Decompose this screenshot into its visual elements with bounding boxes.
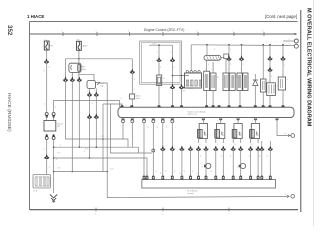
wire box1b to ECM [212, 91, 214, 108]
wire box3 to ECM [239, 91, 241, 108]
svg-text:W: W [221, 156, 223, 158]
node junction ground wire [53, 146, 55, 148]
svg-text:B: B [284, 65, 285, 67]
wire relay contact leg [71, 72, 73, 77]
wire relay left leg [65, 59, 67, 78]
wire drop to igniter box [262, 45, 264, 79]
wire bus y75.5 [173, 75, 190, 77]
ignition switch [44, 121, 63, 132]
svg-text:R: R [230, 49, 232, 51]
svg-text:Dist: Dist [182, 90, 186, 93]
svg-text:8: 8 [263, 30, 264, 32]
wire L4 ground branch [54, 158, 147, 176]
wire L3 branch [110, 104, 151, 153]
fuse AM2 [76, 39, 88, 51]
connector on wire a [44, 154, 49, 159]
svg-text:B: B [192, 171, 193, 173]
svg-text:S1: S1 [217, 77, 219, 79]
section numbers [62, 30, 264, 32]
fuse EFI [44, 39, 53, 50]
svg-text:B: B [156, 171, 157, 173]
wire drop to sensor box1 right [212, 62, 214, 73]
svg-text:7: 7 [228, 214, 229, 216]
svg-text:Filter: Filter [136, 97, 141, 100]
svg-text:1: 1 [88, 91, 89, 93]
connector below fuse EFI [44, 58, 49, 63]
sensor box 2 [223, 73, 238, 91]
svg-text:3: 3 [96, 30, 97, 32]
wire fuse EFI down [46, 50, 48, 59]
svg-text:W: W [267, 156, 269, 158]
svg-text:1 HIACE: 1 HIACE [27, 14, 44, 19]
svg-text:2: 2 [266, 42, 267, 44]
svg-text:B: B [174, 67, 175, 69]
node dot b4 [269, 44, 271, 46]
svg-text:B: B [43, 71, 45, 73]
terminal lower a [45, 134, 48, 139]
wire drop to connector stack [269, 45, 271, 56]
resistor pill horizontal [204, 55, 221, 60]
svg-text:2: 2 [171, 52, 172, 54]
fusible link block [140, 41, 182, 84]
svg-text:W: W [147, 171, 149, 173]
wire diode to ECM [254, 90, 256, 107]
connector in link box b [170, 57, 175, 62]
wire small box down to sensor box2 [225, 59, 227, 73]
wire relay2 leg a [89, 89, 91, 93]
wire ECM right to circle [277, 119, 291, 136]
svg-text:B: B [230, 156, 231, 158]
svg-text:B: B [148, 127, 149, 129]
svg-text:2: 2 [78, 75, 79, 77]
svg-text:W: W [211, 171, 213, 173]
distributor connector block [182, 71, 202, 93]
svg-text:E1: E1 [160, 173, 162, 175]
small box right of pill [224, 54, 229, 59]
svg-text:[Cont. next page]: [Cont. next page] [265, 14, 297, 19]
wire junction103 to ECM [103, 104, 122, 107]
wire tap to C OPN relay [79, 74, 94, 80]
wire stack to box4 [269, 72, 271, 83]
wire box5 to ECM [282, 90, 284, 107]
svg-text:B: B [208, 64, 209, 66]
svg-text:B: B [49, 167, 50, 169]
wire resistor to ECM [158, 86, 160, 108]
svg-text:B: B [60, 145, 61, 147]
svg-text:M OVERALL ELECTRICAL WIRING D: M OVERALL ELECTRICAL WIRING DIAGRAM [306, 8, 312, 127]
svg-text:B–R: B–R [44, 104, 48, 106]
node dot b1 [206, 44, 208, 46]
wire junction L1 down [102, 104, 104, 172]
connector circle to next page bottom [291, 195, 295, 199]
connector stack x270 lower [268, 66, 273, 71]
svg-text:5: 5 [162, 30, 163, 32]
svg-text:L: L [190, 49, 191, 51]
wire box4 to ECM [269, 96, 271, 108]
connector below relay2 leg b [94, 91, 99, 96]
svg-text:B: B [200, 156, 201, 158]
ECM bottom pin ovals [122, 120, 174, 123]
node junction on link bar [158, 44, 160, 46]
svg-text:E3: E3 [197, 173, 199, 175]
sensor box 1 [204, 71, 219, 90]
connector below relay2 leg a [87, 91, 92, 96]
svg-text:2: 2 [228, 69, 229, 71]
wire left leg routing L1 [66, 82, 129, 148]
wire contact leg routing down [71, 82, 73, 172]
terminal AM2 [45, 113, 48, 118]
svg-text:B: B [49, 67, 50, 69]
svg-text:B: B [243, 64, 244, 66]
injector no4 [250, 124, 260, 139]
svg-text:2: 2 [217, 121, 218, 123]
injector no3 [232, 124, 242, 139]
ECM top pin bumps [120, 105, 285, 107]
svg-text:6: 6 [197, 30, 198, 32]
wire horizontal feed line y58.8 [66, 58, 133, 60]
ground engine ground [50, 195, 57, 203]
svg-text:W: W [157, 127, 159, 129]
svg-text:2: 2 [62, 30, 63, 32]
ovals on left vertical wires [152, 149, 155, 152]
wire term a to switch [46, 116, 48, 121]
node junction L2 [79, 146, 81, 148]
terminal IG2 [52, 113, 55, 118]
wire drop to sensor box3 [241, 45, 243, 73]
wire drop to connector b5 [282, 45, 284, 56]
top section line with arrow [30, 33, 295, 35]
svg-text:3: 3 [95, 214, 96, 216]
svg-text:3: 3 [289, 44, 290, 46]
wire switch lower b to ground [53, 140, 55, 193]
svg-text:7: 7 [164, 120, 165, 122]
wire relay2 leg b [95, 89, 97, 93]
connector on wire 96.3 [94, 113, 99, 118]
junction connector block [33, 175, 51, 193]
wire drop to pill [206, 45, 208, 56]
wire check b to ECM [181, 89, 183, 107]
connector on drop b2 [227, 55, 232, 60]
node junction relay2b/L2 [96, 146, 98, 148]
svg-text:R: R [230, 64, 232, 66]
svg-text:40: 40 [251, 144, 253, 146]
svg-text:1: 1 [200, 121, 201, 123]
wire igniter to ECM [262, 92, 264, 107]
injector no1 [198, 124, 208, 139]
vertical wires from ECM to ground bus [144, 123, 270, 176]
wire check a to ECM [172, 89, 174, 107]
connector stack x270 upper [268, 55, 273, 60]
wire switch lower a down to junction box [46, 140, 48, 155]
wire drop to sensor box2 [228, 45, 230, 73]
svg-text:4: 4 [128, 30, 129, 32]
connector below relay leg a [63, 76, 68, 81]
resistor solenoid [157, 75, 166, 86]
svg-text:15A: 15A [44, 39, 48, 42]
wire 181.5 down [181, 76, 183, 85]
svg-text:10: 10 [199, 144, 201, 146]
wire bus left drop to distributor [190, 45, 192, 71]
svg-text:1: 1 [212, 69, 213, 71]
frame left border [29, 22, 31, 210]
svg-text:(2RZ–FTV): (2RZ–FTV) [188, 114, 197, 116]
svg-text:W: W [184, 171, 186, 173]
wire box1 to ECM [206, 91, 208, 108]
sensor circle right [237, 163, 246, 168]
svg-text:1.25B: 1.25B [100, 136, 104, 138]
node junction at fuse AM2 wire [78, 58, 80, 60]
svg-text:2: 2 [95, 91, 96, 93]
svg-text:W–B: W–B [57, 153, 60, 155]
node junction L4 [89, 157, 91, 159]
node junction at 181.5 [181, 75, 183, 77]
connector check a [170, 84, 175, 89]
wire link b down [172, 62, 174, 84]
svg-text:W: W [134, 79, 136, 81]
wire relay2 a to ground branch [89, 97, 91, 158]
ground bus bar [142, 180, 276, 189]
svg-text:W–B: W–B [85, 149, 88, 151]
svg-text:Engine Control (2RZ–FTV): Engine Control (2RZ–FTV) [144, 28, 184, 32]
svg-text:5: 5 [162, 214, 163, 216]
svg-text:B: B [92, 103, 93, 105]
svg-text:W–B: W–B [110, 169, 113, 171]
svg-text:B: B [259, 156, 260, 158]
wire ignition IG feed to ECM [54, 101, 120, 113]
relay circuit opening [87, 81, 104, 89]
connector in link box a [157, 57, 162, 62]
svg-text:R: R [160, 67, 162, 69]
svg-text:1: 1 [240, 69, 241, 71]
wire relay2 b down [95, 97, 97, 148]
node junction contact/tail [106, 171, 108, 173]
arrow tick near right circle [287, 195, 289, 198]
wire ECM pin 132 fan [131, 123, 133, 148]
wire fuse AM2 down [78, 50, 80, 59]
sensor box 4 [267, 83, 279, 96]
wire pill to small box [221, 57, 224, 59]
connector circle next page mid [288, 134, 290, 137]
svg-text:R: R [55, 107, 57, 109]
svg-text:3: 3 [64, 75, 65, 77]
ECM engine control module [118, 107, 294, 117]
wire noise filter to ECM [131, 99, 133, 107]
svg-text:B: B [214, 49, 215, 51]
injector lower wires and dome connectors [199, 138, 259, 143]
svg-text:20: 20 [217, 144, 219, 146]
connector below relay leg b [70, 76, 75, 81]
svg-text:SW: SW [57, 126, 60, 128]
svg-text:R: R [163, 78, 165, 80]
wire connector to noise filter [131, 74, 133, 94]
connector check b [179, 84, 184, 89]
svg-text:G: G [202, 167, 204, 169]
svg-text:6: 6 [174, 120, 175, 122]
svg-text:4: 4 [252, 121, 253, 123]
node dot b2 [228, 44, 230, 46]
sensor box 5 [278, 77, 289, 90]
svg-text:Main: Main [82, 69, 86, 71]
svg-text:2: 2 [205, 69, 206, 71]
frame bottom border [30, 209, 299, 211]
ECM bottom pin bumps [121, 119, 279, 121]
sensor box 3 [237, 73, 248, 91]
igniter narrow box [261, 79, 267, 92]
svg-text:1: 1 [275, 42, 276, 44]
svg-text:2: 2 [268, 81, 269, 83]
frame top border [30, 21, 298, 23]
svg-text:W: W [43, 149, 45, 151]
wire term b to switch [53, 116, 55, 121]
svg-text:30: 30 [234, 144, 236, 146]
sensor circle left [202, 163, 211, 168]
node junction at y75.5 [172, 75, 174, 77]
svg-text:W: W [271, 76, 273, 78]
wire noise filter drop [131, 59, 133, 69]
wires ECM to injectors [203, 119, 255, 124]
svg-text:T: T [287, 80, 289, 82]
misc tiny pin labels [44, 69, 283, 175]
node junction on L1 [102, 138, 104, 140]
dome connectors row y147 [196, 146, 273, 151]
wire connector to box5 [282, 61, 284, 77]
svg-text:W–B: W–B [57, 168, 60, 170]
svg-text:5: 5 [71, 75, 72, 77]
relay EFI main [69, 63, 86, 72]
svg-text:352: 352 [6, 25, 13, 36]
svg-text:B: B [174, 171, 175, 173]
connector below relay leg c [77, 76, 82, 81]
svg-text:B: B [84, 151, 85, 153]
wire between stack [269, 61, 271, 67]
svg-text:3: 3 [235, 121, 236, 123]
svg-text:7: 7 [233, 30, 234, 32]
connector x283 [281, 55, 286, 60]
wire upper branch to circle [283, 40, 294, 42]
svg-text:B: B [240, 171, 241, 173]
svg-text:W: W [285, 134, 287, 136]
wire relay2 contact to ground tail [100, 83, 107, 172]
wire drop b in link box [172, 45, 174, 57]
wire into junction box [46, 160, 48, 175]
svg-text:W–B: W–B [33, 191, 38, 193]
node dot b3 [241, 44, 243, 46]
diode symbol [253, 74, 258, 90]
connector noise filter [130, 68, 135, 73]
svg-text:8: 8 [155, 120, 156, 122]
wire to resistor [158, 62, 160, 75]
svg-text:W: W [285, 194, 287, 196]
svg-text:W: W [56, 159, 58, 161]
connector circle next page upper [294, 39, 298, 43]
wire color labels [43, 42, 285, 174]
connector on wire 89.5 [87, 113, 92, 118]
svg-text:EFI: EFI [49, 46, 53, 48]
wire to ignition switch [46, 64, 48, 112]
wire sensor bus y44.8 [191, 44, 294, 47]
wire drop a in link box [158, 45, 160, 57]
wire pill bottom to sensor box1 [206, 60, 208, 71]
section ticks on top line [63, 32, 264, 36]
right faint page edge line [313, 0, 315, 226]
injector no2 [215, 124, 225, 139]
terminal lower b [52, 134, 55, 139]
wire box2 to ECM [228, 91, 230, 108]
right margin divider line [300, 10, 302, 212]
section ticks on bottom border [96, 208, 229, 212]
bus pins [143, 176, 272, 180]
svg-text:1: 1 [282, 74, 283, 76]
svg-text:B: B [121, 98, 122, 100]
connector circle next page lower [294, 44, 298, 48]
node dot b6 [262, 44, 264, 46]
svg-text:B: B [134, 89, 135, 91]
wire ECM pin 123 fan [122, 123, 124, 139]
noise filter [130, 94, 141, 100]
svg-text:HIACE (RM026E): HIACE (RM026E) [6, 93, 12, 132]
connector on drop b3 [239, 55, 244, 60]
svg-text:AM2: AM2 [83, 45, 88, 48]
wire link top bar [149, 44, 173, 46]
svg-text:L: L [176, 127, 177, 129]
wire ground tail line to page right [54, 172, 290, 198]
svg-text:Ground: Ground [187, 192, 193, 195]
node dot b5 [282, 44, 284, 46]
svg-text:R: R [166, 127, 168, 129]
wire relay coil leg [78, 59, 80, 78]
wire coil leg joins L2 [78, 82, 80, 148]
svg-text:E2: E2 [180, 173, 182, 175]
svg-text:W: W [165, 171, 167, 173]
svg-text:1: 1 [157, 52, 158, 54]
svg-text:Rly: Rly [101, 85, 104, 87]
wire L2 ground branch [54, 147, 139, 153]
svg-text:5: 5 [289, 39, 290, 41]
